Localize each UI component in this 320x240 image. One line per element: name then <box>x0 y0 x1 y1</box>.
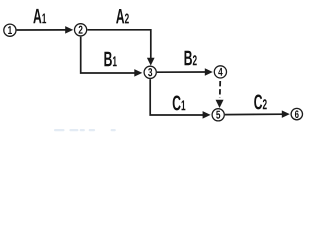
wire dummy dependency (node 4 to node 5, dashed) <box>219 81 221 98</box>
wire C1 (node 3 bottom, corner, right to node 5) <box>150 79 204 115</box>
label B1 <box>104 52 116 66</box>
label C1 <box>173 96 186 111</box>
arrowhead A1 <box>65 26 73 33</box>
arrowhead B2 <box>205 68 213 76</box>
arrowhead A2 <box>147 58 155 66</box>
faint cropped caption remnant at bottom <box>54 129 116 131</box>
wire B1 (node 2 bottom, corner, right to node 3) <box>81 37 136 73</box>
node 5 <box>212 109 224 121</box>
label A1 <box>33 9 46 23</box>
wire B2 (node 3 to node 4) <box>157 71 206 73</box>
node 4 <box>214 66 226 78</box>
node 6 <box>291 108 302 119</box>
arrowhead dummy <box>216 100 224 108</box>
wire A1 (node 1 to node 2) <box>17 29 66 31</box>
arrowhead B1 <box>134 69 142 77</box>
node 3 <box>144 66 156 78</box>
label B2 <box>185 51 197 65</box>
label A2 <box>116 9 129 23</box>
node 1 <box>4 24 16 36</box>
wire C2 (node 5 to node 6) <box>225 113 283 115</box>
wire A2 (node 2 right, corner, down to node 3) <box>87 30 150 59</box>
label C2 <box>254 95 267 110</box>
arrowhead C1 <box>203 111 211 119</box>
arrowhead C2 <box>282 110 290 118</box>
node 2 <box>75 24 87 36</box>
